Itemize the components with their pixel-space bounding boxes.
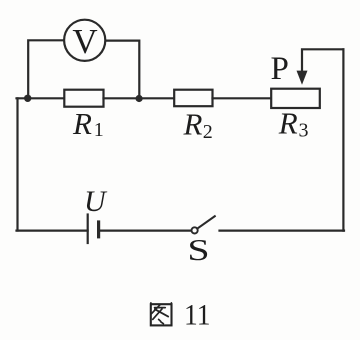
wire bottom left segment to battery xyxy=(17,230,88,232)
wire main horizontal left segment to R1 xyxy=(17,97,65,99)
resistor R1 xyxy=(64,90,103,107)
svg-text:R: R xyxy=(278,106,298,141)
rheostat R3 xyxy=(271,89,320,108)
wire R1 to R2 xyxy=(104,97,175,99)
node B junction dot xyxy=(136,95,143,102)
wire left riser (node A to bottom-left corner) xyxy=(16,98,18,230)
battery long plate (positive) xyxy=(87,215,89,244)
slider P arrowhead xyxy=(297,71,308,85)
svg-text:1: 1 xyxy=(94,119,104,141)
wire R2 to R3 xyxy=(213,97,272,99)
svg-text:S: S xyxy=(187,232,209,267)
voltmeter U1 xyxy=(64,20,105,61)
wire voltmeter left branch xyxy=(28,40,64,96)
svg-text:11: 11 xyxy=(184,298,211,331)
wire switch to bottom-right corner xyxy=(220,230,345,232)
resistor R2 xyxy=(174,90,212,107)
wire voltmeter right branch xyxy=(106,41,140,96)
svg-text:U: U xyxy=(84,185,108,218)
node A junction dot xyxy=(24,95,31,102)
wire right side vertical xyxy=(342,49,344,230)
wire battery to switch xyxy=(99,230,191,232)
switch S pivot xyxy=(192,227,198,233)
svg-text:P: P xyxy=(271,51,289,87)
svg-text:V: V xyxy=(72,22,97,61)
slider P wire (stem, top run to right corner) xyxy=(302,49,343,72)
svg-text:R: R xyxy=(72,106,92,141)
svg-text:2: 2 xyxy=(203,121,213,143)
svg-text:3: 3 xyxy=(299,120,309,142)
svg-text:R: R xyxy=(183,107,203,142)
switch S lever xyxy=(197,216,215,228)
battery short plate (negative) xyxy=(97,222,100,237)
caption hanzi "tu" (figure) drawn as strokes xyxy=(151,303,172,326)
